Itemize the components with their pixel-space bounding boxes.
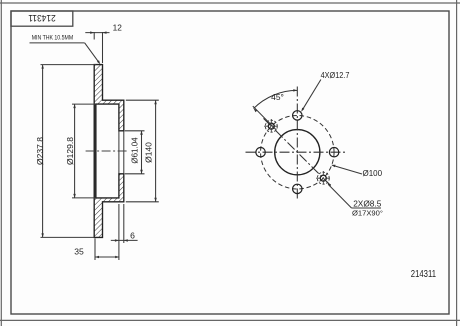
svg-text:2XØ8.5: 2XØ8.5 xyxy=(353,199,382,209)
svg-text:Ø129.8: Ø129.8 xyxy=(65,137,75,165)
svg-text:214311: 214311 xyxy=(28,13,56,23)
svg-text:45°: 45° xyxy=(271,92,284,102)
svg-text:Ø140: Ø140 xyxy=(144,142,154,163)
svg-text:Ø100: Ø100 xyxy=(363,169,383,178)
svg-text:Ø237.8: Ø237.8 xyxy=(35,137,45,165)
svg-text:12: 12 xyxy=(113,22,123,32)
svg-text:35: 35 xyxy=(74,247,84,257)
svg-text:214311: 214311 xyxy=(411,269,436,280)
svg-text:MIN THK 10.5MM: MIN THK 10.5MM xyxy=(32,34,73,41)
svg-text:6: 6 xyxy=(130,230,135,240)
svg-text:Ø61.04: Ø61.04 xyxy=(131,137,140,164)
svg-text:Ø17X90°: Ø17X90° xyxy=(352,209,383,218)
svg-text:4XØ12.7: 4XØ12.7 xyxy=(321,71,350,80)
